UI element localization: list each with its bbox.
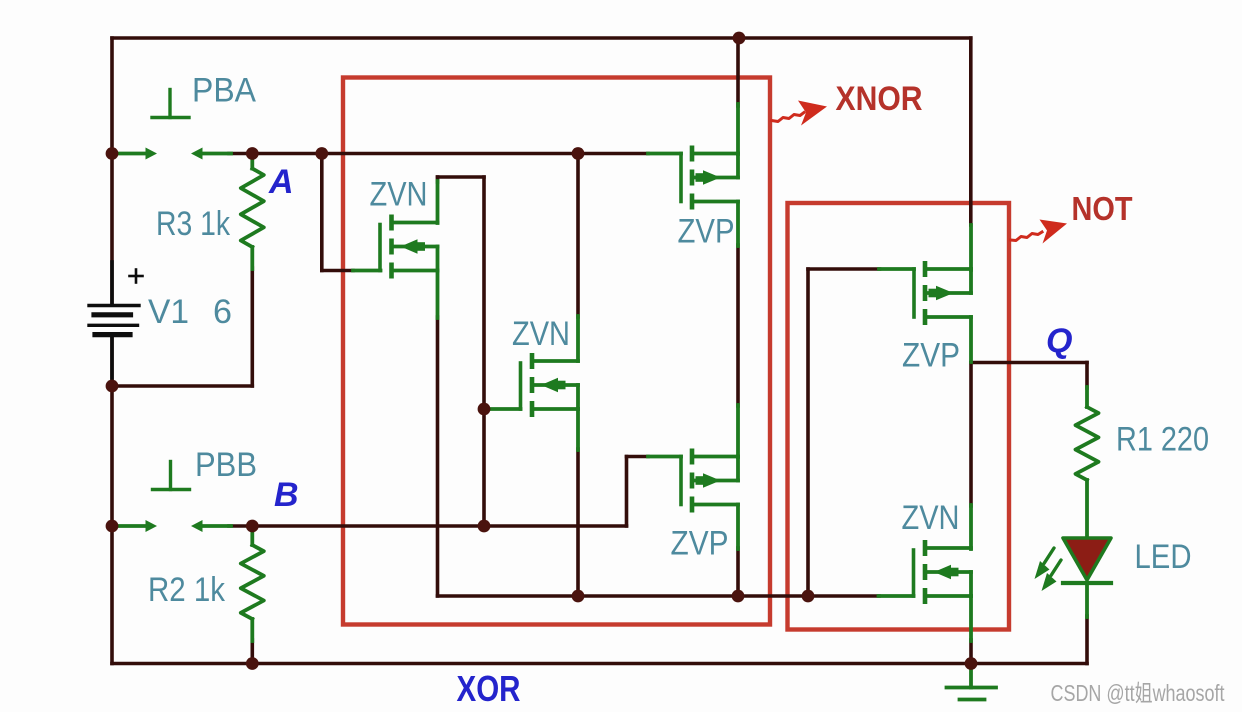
svg-text:XOR: XOR [457, 668, 521, 709]
svg-text:6: 6 [213, 293, 232, 331]
svg-text:ZVN: ZVN [370, 176, 428, 214]
svg-text:R2 1k: R2 1k [148, 571, 226, 609]
svg-text:A: A [268, 163, 294, 201]
svg-text:ZVP: ZVP [678, 213, 735, 251]
svg-text:R3 1k: R3 1k [156, 205, 231, 243]
svg-text:ZVP: ZVP [671, 525, 729, 563]
svg-text:ZVN: ZVN [902, 499, 960, 537]
svg-text:CSDN @tt姐whaosoft: CSDN @tt姐whaosoft [1051, 680, 1225, 706]
svg-text:PBB: PBB [195, 446, 257, 484]
svg-text:LED: LED [1135, 538, 1192, 576]
svg-text:Q: Q [1046, 322, 1072, 360]
svg-text:XNOR: XNOR [836, 80, 923, 118]
svg-text:PBA: PBA [192, 72, 256, 110]
svg-text:ZVN: ZVN [512, 315, 570, 353]
svg-text:ZVP: ZVP [902, 337, 960, 375]
svg-text:V1: V1 [148, 293, 189, 331]
svg-text:NOT: NOT [1072, 190, 1133, 227]
svg-text:R1 220: R1 220 [1116, 421, 1209, 459]
svg-text:B: B [274, 476, 299, 514]
